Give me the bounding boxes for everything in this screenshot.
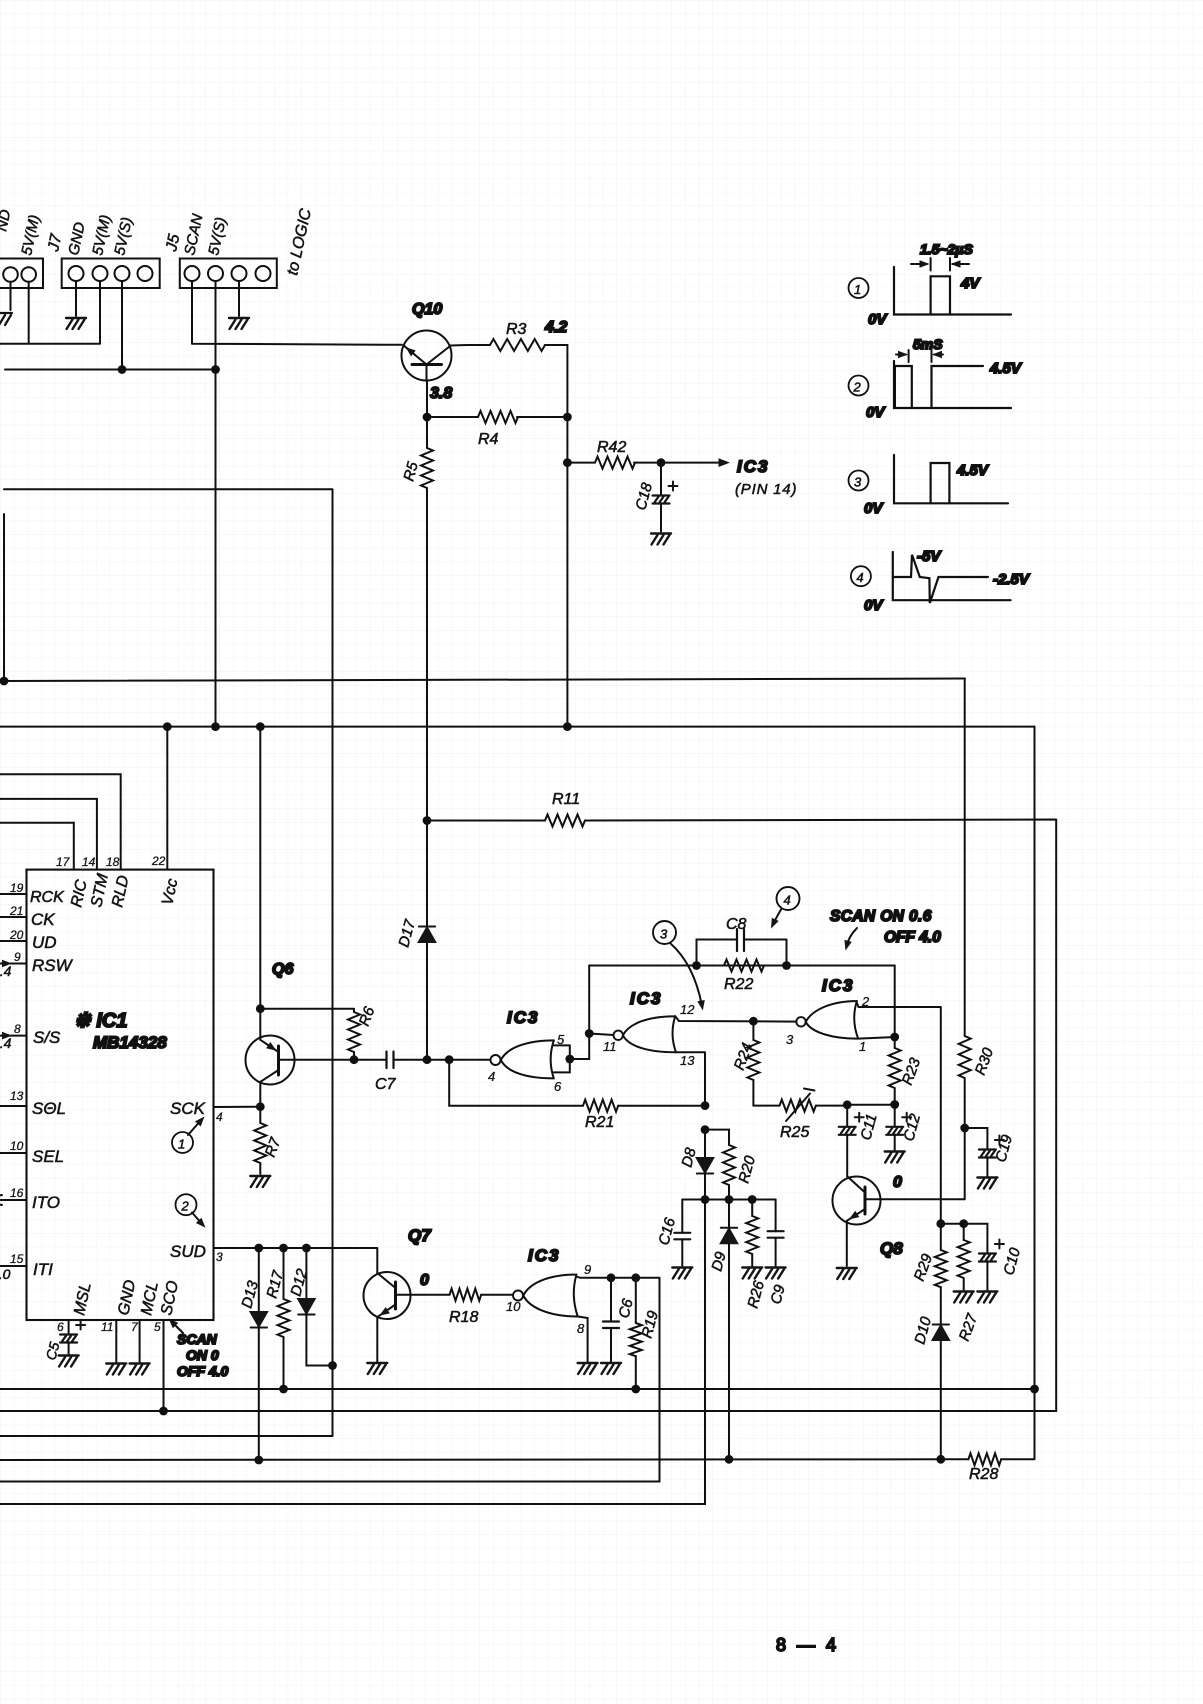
svg-text:0V: 0V [864, 597, 884, 614]
capacitor C11 [839, 1105, 881, 1177]
wire IC1 pin 17 stub [0, 823, 74, 870]
svg-text:C7: C7 [375, 1076, 397, 1093]
wire IC1 pin 9 RSW stub with arrow [0, 960, 27, 979]
resistor R5 [400, 417, 433, 1060]
svg-text:3.8: 3.8 [430, 385, 452, 402]
wire IC1 pin 14 stub [0, 799, 97, 870]
diode D17 [395, 917, 435, 949]
svg-text:3.4: 3.4 [0, 963, 12, 979]
wire bus A (upper horizontal rail) [4, 679, 965, 682]
wire J5 5V(S) long vertical [215, 281, 217, 726]
wire bus y1459.5 [0, 1458, 968, 1461]
transistor Q7 [364, 1226, 450, 1362]
svg-text:11: 11 [101, 1320, 113, 1334]
svg-text:-5V: -5V [917, 548, 942, 565]
wire bus y1481.5 [0, 1481, 660, 1483]
svg-text:R18: R18 [449, 1309, 478, 1326]
ground R27 [954, 1292, 974, 1303]
wire Q10 collector to R3 [451, 344, 491, 347]
node Q6 rail R6 branch [256, 1004, 265, 1013]
svg-text:4V: 4V [960, 275, 981, 292]
ground C10 [977, 1292, 997, 1303]
waveform 3 [849, 455, 1009, 517]
wire IC1 pin 21 CK stub [0, 916, 27, 918]
svg-text:8: 8 [577, 1321, 585, 1336]
node C12 top [890, 1100, 899, 1109]
connector J7 [45, 213, 160, 288]
wire Q10 base down [426, 381, 428, 417]
resistor R20 [723, 1145, 759, 1200]
wire oscillator loop top [589, 965, 895, 967]
diode D12 [287, 1248, 332, 1366]
gate IC3 pins 11 12 13 [589, 989, 695, 1068]
wire loop left vertical [588, 966, 590, 1034]
svg-text:3: 3 [660, 927, 668, 942]
node D10 bottom [936, 1455, 945, 1464]
capacitor C8 [697, 916, 787, 966]
node D8 bottom [701, 1195, 710, 1204]
node R27 top [959, 1219, 968, 1228]
resistor R21 [449, 1060, 705, 1131]
wire R6 top branch [260, 1009, 354, 1012]
node C18 top [657, 458, 666, 467]
svg-text:1: 1 [854, 282, 861, 297]
svg-text:21: 21 [9, 904, 23, 918]
node Q10 base R4 R5 [423, 413, 432, 422]
svg-text:IC3: IC3 [630, 989, 662, 1008]
wire IC1 pin 11 GND down [115, 1320, 117, 1362]
capacitor C9 [767, 1200, 789, 1307]
resistor R4 [427, 411, 567, 448]
svg-text:17: 17 [56, 855, 71, 869]
wire J7 GND pin down [75, 281, 77, 316]
svg-text:0: 0 [420, 1272, 429, 1289]
gate IC3 pins 4 5 6 [488, 1008, 570, 1094]
ground R26 [742, 1268, 762, 1279]
resistor R28 [968, 727, 1034, 1483]
node C19 branch [960, 1124, 969, 1133]
svg-text:8 — 4: 8 — 4 [776, 1635, 839, 1655]
wire gate C pin 8 to ground [578, 1317, 588, 1362]
node R17 bottom [279, 1385, 288, 1394]
resistor R27 [956, 1224, 982, 1344]
ground C19 [977, 1178, 997, 1189]
capacitor C12 [886, 1105, 924, 1151]
wire SUD pin 3 row [214, 1248, 378, 1273]
IC1 MB14328 [9, 854, 223, 1334]
resistor R3 [490, 321, 545, 351]
svg-text:R42: R42 [597, 439, 626, 456]
gate IC3 pins 8 9 10 [506, 1246, 591, 1336]
wire IC1 pin 6 MSL to C5 [68, 1320, 70, 1334]
svg-text:5: 5 [154, 1320, 161, 1334]
diode D10 [911, 1314, 949, 1346]
node loop left [585, 1029, 594, 1038]
ground C18 [651, 534, 671, 545]
svg-text:0V: 0V [868, 311, 888, 328]
svg-text:20: 20 [9, 928, 24, 942]
node Q6 collector SCK R7 [256, 1102, 265, 1111]
node R29 top [936, 1219, 945, 1228]
svg-text:OFF 4.0: OFF 4.0 [884, 929, 941, 946]
svg-text:2: 2 [853, 380, 862, 395]
capacitor C7 [375, 1052, 490, 1094]
wire IC1 pin 15 ITI stub [0, 1266, 27, 1282]
resistor R11 and line to right edge column [427, 791, 1056, 1411]
ground IC1 pin7 [130, 1364, 150, 1375]
wire gate B pin 2 to Q8 column [857, 1003, 941, 1224]
node Q6 rail on bus B [256, 722, 265, 731]
wire R3 to node column [545, 344, 567, 346]
diode D9 [708, 1200, 737, 1460]
wire IC1 pin 18 stub [0, 774, 121, 869]
node D17 bottom on C7 wire [423, 1055, 432, 1064]
node R19 bottom [631, 1385, 640, 1394]
capacitor C5 [42, 1321, 85, 1362]
label SCAN ON 0.6 OFF 4.0 with arrow [830, 908, 941, 951]
wire Q6 emitter rail from bus B [259, 727, 261, 1009]
node bus A left end [0, 677, 8, 686]
resistor R18 [449, 1289, 513, 1326]
wire R20 branch top [705, 1130, 729, 1145]
svg-text:13: 13 [680, 1053, 695, 1068]
label SCAN ON 0 OFF 4.0 with arrow [166, 1316, 229, 1379]
wire left box pin1 to partial ground [10, 282, 12, 310]
wire Vcc pin 22 drop [166, 727, 168, 870]
svg-text:3.4: 3.4 [0, 1035, 12, 1051]
capacitor C18 [632, 463, 677, 532]
resistor R26 [744, 1200, 768, 1311]
svg-text:3: 3 [854, 475, 862, 490]
svg-text:SCK: SCK [170, 1099, 206, 1118]
wire IC1 pin 19 RCK stub [0, 893, 27, 895]
svg-text:SEL: SEL [32, 1147, 64, 1166]
svg-text:4.2: 4.2 [544, 319, 567, 336]
node R4 right [563, 413, 572, 422]
svg-text:Q7: Q7 [408, 1226, 432, 1245]
node R20 bottom [725, 1195, 734, 1204]
waveform 2 [849, 336, 1023, 421]
svg-text:1: 1 [859, 1039, 866, 1054]
node R21 D8 junction [701, 1101, 710, 1110]
svg-text:OFF 4.0: OFF 4.0 [177, 1363, 229, 1379]
svg-text:4: 4 [856, 570, 863, 585]
capacitor C10 [979, 1240, 1024, 1291]
ground (partial, left edge) [0, 313, 12, 325]
svg-text:1.5~2µS: 1.5~2µS [920, 241, 973, 257]
diode D8 [678, 1130, 713, 1200]
svg-text:14: 14 [82, 855, 96, 869]
svg-text:IC3: IC3 [528, 1246, 560, 1265]
svg-text:13: 13 [10, 1089, 24, 1103]
svg-text:-2.5V: -2.5V [993, 571, 1031, 588]
svg-text:9: 9 [14, 950, 21, 964]
resistor R22 [724, 960, 764, 994]
node SCO on bus1411 [159, 1407, 168, 1416]
node R26 top [748, 1195, 757, 1204]
wire IC1 pin 8 S/S stub with arrow [0, 1032, 27, 1051]
svg-text:CK: CK [31, 910, 55, 929]
wire R29 node to C10 [941, 1224, 988, 1253]
label IC3 (PIN14) [735, 457, 797, 498]
svg-text:IC3: IC3 [737, 457, 769, 476]
wire bus B (5V rail) [0, 726, 1035, 728]
svg-text:IC3: IC3 [507, 1008, 539, 1027]
svg-text:5mS: 5mS [913, 336, 943, 352]
svg-text:ITI: ITI [33, 1260, 53, 1279]
node J7-5VS junction [118, 365, 127, 374]
wire gate B pin 1 to R23 [858, 1037, 895, 1039]
waveform 1 [849, 241, 1012, 328]
node R20 branch [701, 1125, 710, 1134]
wire SCAN net J5 pin1 to Q10 emitter [192, 281, 402, 345]
node R17 top [279, 1244, 288, 1253]
svg-text:8: 8 [14, 1022, 21, 1036]
transistor Q10 [402, 301, 452, 381]
node D12 on big-box column [328, 1361, 337, 1370]
svg-text:SΘL: SΘL [32, 1099, 66, 1118]
svg-text:(PIN 14): (PIN 14) [735, 481, 797, 498]
svg-text:5: 5 [557, 1032, 565, 1047]
transistor Q6 [246, 961, 387, 1107]
ground IC1 pin11 [106, 1364, 126, 1375]
label 3.8 [430, 385, 452, 402]
svg-text:4.5V: 4.5V [989, 360, 1023, 377]
wire gate C pin 9 row [577, 1277, 660, 1482]
node gate1 input join [565, 1055, 574, 1064]
connector J5 [163, 212, 277, 288]
svg-text:RCK: RCK [30, 889, 65, 906]
svg-text:12: 12 [680, 1002, 695, 1017]
node 5VS rail junction [211, 365, 220, 374]
svg-text:3.0: 3.0 [0, 1266, 11, 1282]
ground C5 [59, 1356, 79, 1367]
ground J7 [66, 318, 86, 329]
resistor R29 [911, 1224, 947, 1323]
node C11 top [843, 1100, 852, 1109]
svg-text:R3: R3 [506, 321, 527, 338]
callout circled 3 [653, 921, 707, 1011]
wire IC1 pin 5 SCO down to bus [163, 1320, 165, 1411]
capacitor C19 [965, 1128, 1016, 1176]
svg-text:RSW: RSW [32, 956, 74, 975]
resistor R30 on right column [959, 679, 998, 1200]
svg-text:4: 4 [216, 1110, 223, 1124]
svg-text:R11: R11 [552, 791, 580, 808]
node bus1389 right end [1030, 1385, 1039, 1394]
wire gate1 inputs to loop node [570, 1034, 589, 1060]
diode D13 [238, 1248, 267, 1460]
svg-text:Q6: Q6 [272, 961, 293, 978]
wire J5 pin3 down [238, 281, 240, 316]
wire gate A pin 13 to D8 column [676, 1052, 705, 1105]
ground Q7 emitter [367, 1363, 387, 1374]
node 5VS vertical on bus B [211, 722, 220, 731]
svg-text:0V: 0V [864, 500, 884, 517]
wire D10 down to bus [940, 1340, 942, 1459]
callout circled 1 SCK [172, 1114, 207, 1153]
wire IC1 pin 7 MCL down [139, 1320, 141, 1362]
wire arrow to IC3 pin14 [661, 458, 730, 467]
wire IC1 pin 16 ITO stub [0, 1195, 27, 1205]
ground C16 [672, 1268, 692, 1279]
wire C16 D9 R26 C9 row [682, 1199, 775, 1201]
svg-text:0: 0 [893, 1174, 902, 1191]
svg-text:16: 16 [10, 1186, 24, 1200]
svg-text:R21: R21 [585, 1114, 614, 1131]
ground C6 [601, 1363, 621, 1374]
wire left edge stub vertical [3, 514, 5, 681]
node R11 left on R5 column [423, 816, 432, 825]
wire IC1 pin 20 UD stub [0, 940, 27, 942]
node C6 top [607, 1273, 616, 1282]
svg-text:9: 9 [584, 1262, 591, 1277]
node x567 on 5V bus [563, 722, 572, 731]
label page number 8-4 [776, 1635, 839, 1655]
node D13 bottom [254, 1456, 263, 1465]
node D9 bottom [725, 1455, 734, 1464]
wire J7 5V(S) pin down to 5V(S) rail [121, 281, 123, 369]
svg-text:6: 6 [554, 1079, 562, 1094]
ground Q8 emitter [837, 1268, 857, 1279]
gate IC3 pins 1 2 3 [786, 976, 870, 1054]
connector J6 (partial, left edge) [0, 208, 43, 288]
wire gate A pin 12 to gate B output [675, 1016, 796, 1021]
svg-text:S/S: S/S [33, 1028, 61, 1047]
callout circled 2 SUD [176, 1194, 209, 1230]
wire bus y1411 [0, 1410, 1056, 1412]
svg-text:IC3: IC3 [822, 976, 854, 995]
ground R7 [250, 1176, 270, 1187]
svg-text:0V: 0V [866, 404, 886, 421]
wire bus SUD-2 (y1389) [0, 1388, 1035, 1390]
svg-text:2: 2 [181, 1199, 190, 1214]
node R21 branch on C7 wire [445, 1055, 454, 1064]
resistor R25 variable [753, 1089, 847, 1142]
label 0 at Q7 collector [420, 1272, 429, 1289]
wire loop right vertical [894, 966, 896, 1038]
svg-text:R22: R22 [724, 976, 753, 993]
svg-text:※ IC1: ※ IC1 [74, 1010, 127, 1032]
wire SCK pin 4 to Q6 collector [214, 1106, 261, 1108]
ground C12 [885, 1152, 905, 1163]
wire node column x567 [566, 345, 568, 727]
svg-text:22: 22 [151, 854, 166, 868]
node pin1 R23 [890, 1033, 899, 1042]
svg-text:3: 3 [216, 1250, 223, 1264]
capacitor C16 [655, 1200, 690, 1267]
svg-text:11: 11 [603, 1039, 617, 1054]
resistor R7 [254, 1107, 284, 1174]
node C8 right [782, 961, 791, 970]
node D12 top [302, 1244, 311, 1253]
svg-text:SUD: SUD [170, 1242, 206, 1261]
wire D8 column to bottom bus [0, 1200, 705, 1505]
wire 5V(S) rail left [5, 369, 216, 371]
svg-text:UD: UD [32, 933, 57, 952]
svg-text:SCAN: SCAN [177, 1331, 218, 1347]
node R6 bottom [350, 1055, 359, 1064]
svg-text:6: 6 [57, 1320, 64, 1334]
svg-text:R28: R28 [969, 1466, 998, 1483]
wire R11 column bottom corner [1055, 1410, 1057, 1412]
wire IC1 pin 10 SEL stub [0, 1152, 27, 1154]
wire IC1 pin 13 SQL stub [0, 1105, 27, 1107]
ground C9 [766, 1268, 786, 1279]
svg-text:10: 10 [10, 1139, 24, 1153]
svg-text:4.5V: 4.5V [956, 462, 990, 479]
resistor R6 [348, 1004, 379, 1060]
resistor R42 [567, 439, 661, 469]
resistor R24 [731, 1021, 760, 1105]
label 0 at Q8 collector [893, 1174, 902, 1191]
ground J5 [229, 318, 249, 329]
svg-text:4: 4 [784, 893, 791, 908]
svg-text:ITO: ITO [32, 1193, 60, 1212]
resistor R23 [889, 1037, 925, 1105]
resistor R19 [630, 1278, 662, 1389]
node D13 top [254, 1244, 263, 1253]
ground pin8 [578, 1363, 598, 1374]
wire bus y1436 [0, 1435, 333, 1437]
svg-text:15: 15 [10, 1252, 24, 1266]
callout circled 4 [768, 887, 800, 930]
wire 5V(M) net: left box pin2 - J7 pin2 [0, 282, 100, 344]
svg-text:3: 3 [786, 1032, 794, 1047]
wire big-box corner left [4, 489, 333, 1436]
svg-text:R25: R25 [780, 1124, 809, 1141]
label 4.2 [544, 319, 567, 336]
svg-text:ON 0: ON 0 [186, 1347, 219, 1363]
svg-text:SCAN ON 0.6: SCAN ON 0.6 [830, 908, 932, 925]
svg-text:18: 18 [106, 855, 120, 869]
wire R25 node to C12 [847, 1104, 895, 1106]
svg-text:MB14328: MB14328 [93, 1033, 167, 1052]
svg-text:4: 4 [488, 1069, 495, 1084]
node R24 top [749, 1017, 758, 1026]
svg-text:R4: R4 [478, 431, 499, 448]
svg-text:Q8: Q8 [880, 1239, 903, 1258]
label to LOGIC [284, 207, 315, 277]
node Vcc on bus B [163, 722, 172, 731]
waveform 4 [851, 548, 1031, 614]
svg-text:Q10: Q10 [412, 301, 442, 318]
node R42 left [563, 458, 572, 467]
node C8 left [692, 961, 701, 970]
capacitor C6 [603, 1278, 637, 1362]
svg-text:10: 10 [506, 1299, 521, 1314]
resistor R17 [263, 1248, 289, 1389]
svg-text:C8: C8 [726, 916, 747, 933]
svg-text:19: 19 [10, 881, 24, 895]
svg-text:1: 1 [178, 1137, 185, 1152]
transistor Q8 [833, 1177, 965, 1267]
node R19 top [631, 1273, 640, 1282]
